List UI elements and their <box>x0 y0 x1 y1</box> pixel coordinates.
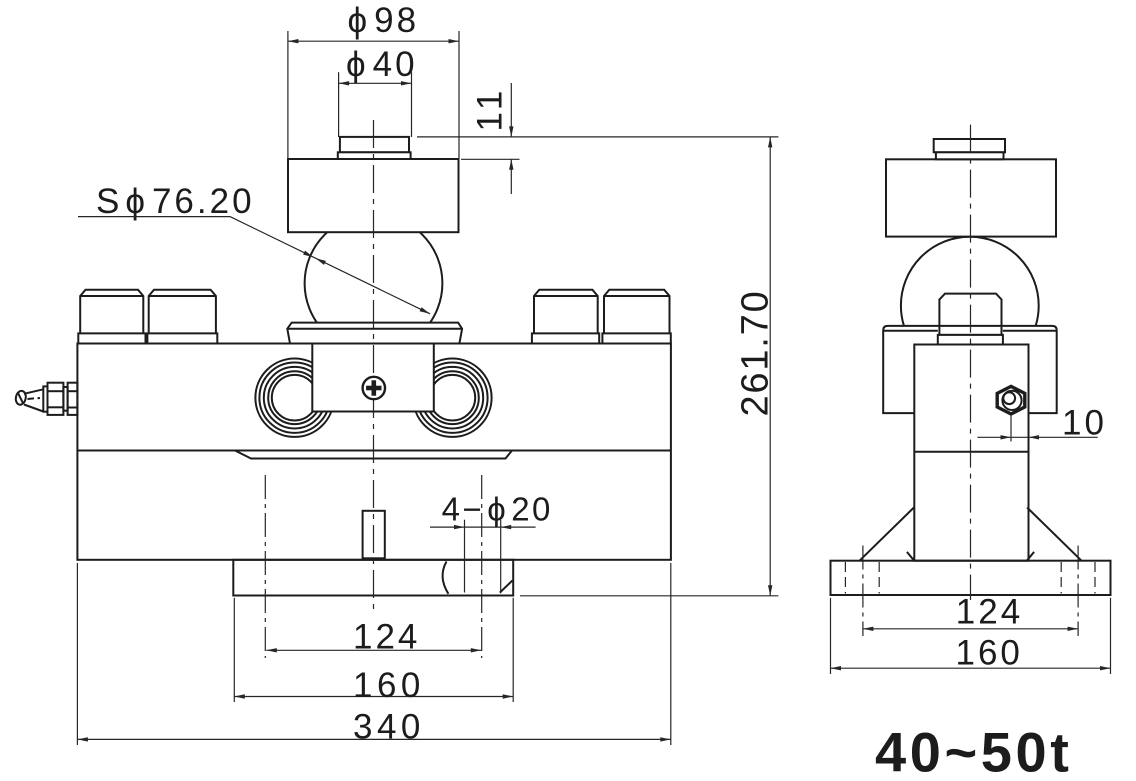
centerline front <box>373 120 375 612</box>
center block covering spirals <box>312 345 434 412</box>
340 dim front <box>77 563 670 747</box>
svg-text:ϕ40: ϕ40 <box>346 45 418 84</box>
bolt 1 <box>78 290 145 344</box>
centerline side <box>970 125 972 600</box>
right spiral <box>413 359 491 437</box>
phillips screw <box>363 377 385 399</box>
cap lower (side) <box>936 152 1004 159</box>
cap upper (side) <box>934 139 1005 152</box>
pin rect at body bottom center <box>363 511 385 559</box>
main body <box>77 344 671 560</box>
svg-text:160: 160 <box>956 634 1023 673</box>
phi98 dim <box>288 1 459 159</box>
10 dim <box>977 404 1107 443</box>
hole centerline left <box>264 475 266 658</box>
svg-text:124: 124 <box>353 618 420 657</box>
svg-text:340: 340 <box>353 708 425 747</box>
cap phi40 lower <box>338 152 411 159</box>
base plate (side) <box>831 561 1111 595</box>
svg-text:ϕ98: ϕ98 <box>348 1 420 40</box>
4-phi20 dim <box>430 491 553 594</box>
bolt 4 <box>602 290 670 344</box>
hole centerline right <box>481 475 483 658</box>
phi40 dim <box>339 45 418 137</box>
column seam <box>914 451 1028 453</box>
svg-text:11: 11 <box>471 86 510 131</box>
body step line <box>77 450 671 452</box>
svg-text:261.70: 261.70 <box>735 289 777 416</box>
hex bolt side <box>997 386 1025 414</box>
svg-text:160: 160 <box>353 666 425 705</box>
hole centerlines side <box>862 546 864 637</box>
ball (side) <box>901 237 1039 375</box>
S phi76.20 label <box>78 182 431 316</box>
boss (side) <box>939 294 1001 335</box>
body groove <box>235 451 512 459</box>
svg-text:4−ϕ20: 4−ϕ20 <box>442 491 553 528</box>
svg-text:40~50t: 40~50t <box>875 721 1073 781</box>
svg-text:Sϕ76.20: Sϕ76.20 <box>96 182 255 221</box>
261.70 dim <box>520 137 778 596</box>
124 dim side <box>863 593 1078 632</box>
break slash <box>500 581 513 593</box>
cable gland <box>15 383 78 415</box>
160 dim front <box>234 598 513 705</box>
top block (front) <box>288 159 459 232</box>
break arc near right hole <box>443 562 449 594</box>
right gusset <box>1027 508 1081 561</box>
cap phi40 upper <box>340 137 409 152</box>
collar (side) <box>938 335 1003 345</box>
top block (side) <box>886 159 1056 236</box>
svg-text:10: 10 <box>1062 404 1107 443</box>
hole edge dashed lines <box>845 562 1095 594</box>
svg-text:124: 124 <box>956 593 1023 632</box>
bolt 2 <box>147 290 217 344</box>
left gusset <box>860 508 914 561</box>
11 dim <box>417 83 778 194</box>
flange with wings <box>883 326 1056 413</box>
ball (front) <box>305 214 443 352</box>
left spiral <box>255 359 333 437</box>
column <box>914 345 1028 561</box>
160 dim side <box>831 598 1111 674</box>
124 dim front <box>266 618 481 657</box>
base plate (front) <box>233 560 513 596</box>
bolt 3 <box>532 290 599 344</box>
boss plate under ball <box>287 323 462 344</box>
